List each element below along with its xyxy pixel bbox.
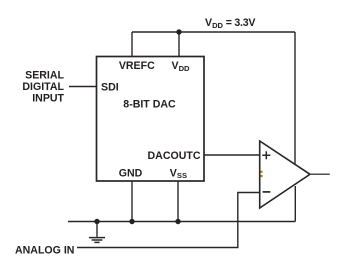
- svg-text:VDD: VDD: [172, 60, 191, 73]
- op-amp + input symbol: [262, 151, 270, 159]
- wire: ANALOG IN to op-amp - input: [77, 193, 260, 248]
- wire: right rail down to op-amp positive supply: [294, 32, 296, 164]
- svg-text:VREFC: VREFC: [119, 60, 155, 72]
- artifact: small orange colon mark: [260, 171, 262, 178]
- wire: ground rail: [68, 221, 295, 223]
- svg-text:SDI: SDI: [101, 82, 119, 94]
- node: dot at VSS stub: [175, 219, 180, 224]
- svg-text:8-BIT DAC: 8-BIT DAC: [123, 98, 176, 110]
- svg-text:GND: GND: [119, 167, 143, 179]
- node: dot at ground symbol: [94, 219, 99, 224]
- op-amp U2 triangle: [260, 141, 310, 208]
- wire: VDD stub to top rail: [178, 32, 180, 57]
- svg-text:ANALOG IN: ANALOG IN: [15, 244, 74, 256]
- wire: GND stub: [131, 181, 133, 222]
- wire: SDI input: [69, 86, 97, 88]
- wire: op-amp negative supply down to ground rail: [294, 186, 296, 222]
- DAC U1: 8-BIT DAC box: [97, 57, 205, 182]
- svg-text:DACOUTC: DACOUTC: [148, 150, 201, 162]
- svg-text:SERIAL: SERIAL: [25, 69, 64, 81]
- ground symbol: [89, 222, 105, 243]
- svg-text:VSS: VSS: [170, 167, 187, 180]
- wire: DACOUTC to op-amp + input: [204, 154, 260, 156]
- node: dot at GND stub: [129, 219, 134, 224]
- wire: VSS stub: [177, 181, 179, 222]
- wire: op-amp output: [310, 173, 330, 175]
- wire: VDD top rail: [132, 31, 295, 33]
- wire: VREFC stub to top rail: [131, 32, 133, 57]
- svg-text:INPUT: INPUT: [32, 93, 64, 105]
- op-amp - input symbol: [263, 191, 271, 193]
- svg-text:DIGITAL: DIGITAL: [22, 81, 64, 93]
- svg-text:VDD = 3.3V: VDD = 3.3V: [205, 17, 255, 30]
- node: junction dot on top rail: [176, 29, 181, 34]
